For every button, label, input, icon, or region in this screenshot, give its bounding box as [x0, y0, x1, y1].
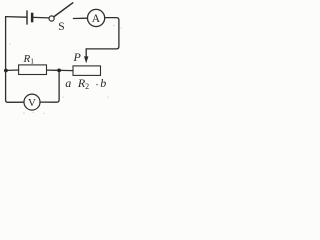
svg-text:a: a — [65, 76, 71, 90]
wire slider drop — [85, 49, 87, 57]
wire — [47, 69, 57, 71]
slider arrowhead — [84, 56, 88, 63]
svg-text:V: V — [28, 97, 36, 109]
svg-text:b: b — [100, 76, 106, 90]
switch S — [49, 16, 54, 21]
ammeter A — [88, 9, 105, 26]
wire — [73, 17, 87, 19]
svg-text:R1: R1 — [22, 53, 34, 66]
node junction right — [57, 69, 61, 73]
resistor R1 — [19, 65, 47, 75]
wire left vertical — [6, 17, 24, 103]
svg-text:P: P — [73, 50, 82, 64]
rheostat R2 — [73, 66, 101, 76]
node junction left — [4, 69, 8, 73]
dot between R2 and b — [96, 84, 97, 85]
svg-text:S: S — [58, 21, 64, 33]
battery — [26, 10, 33, 24]
svg-text:R2: R2 — [77, 76, 89, 91]
wire — [61, 69, 73, 71]
wire — [86, 18, 119, 49]
wire — [34, 16, 49, 19]
voltmeter V — [24, 94, 40, 110]
wire — [8, 69, 19, 71]
wire — [6, 16, 26, 19]
svg-text:A: A — [92, 13, 101, 25]
wire — [40, 72, 59, 102]
faint scan speckles — [9, 25, 121, 114]
